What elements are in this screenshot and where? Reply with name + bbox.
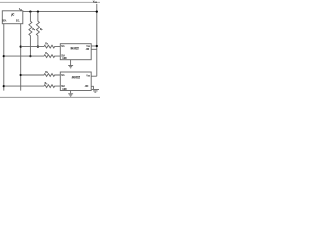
svg-text:µC: µC: [11, 13, 15, 17]
wire SDA1 to U2 with resistor RS2: [4, 55, 61, 58]
node junction SCL branch 1: [20, 45, 22, 47]
svg-text:ADD: ADD: [86, 47, 89, 51]
wire SCL1 to U2 with resistor RS1: [21, 45, 61, 48]
node junction SDA branch 2: [3, 85, 5, 87]
wire VDD top: uC to rail: [23, 11, 97, 13]
bottom rule: [0, 96, 100, 98]
wire SDA vertical from uC: [3, 24, 5, 91]
node junction RP1/SDA1: [29, 55, 31, 57]
svg-text:RS: RS: [45, 81, 48, 85]
node junction SDA branch 1: [3, 55, 5, 57]
microcontroller U1 box: [2, 11, 23, 24]
temperature sensor U2 box: [60, 44, 91, 60]
wire U3 ADD to ground: [91, 86, 93, 89]
node junction RP2/SCL1: [37, 45, 39, 47]
svg-text:MAX6625: MAX6625: [71, 47, 79, 51]
temperature sensor U3 box: [60, 72, 91, 91]
svg-text:ADD: ADD: [85, 84, 88, 88]
node junction VDD/rail: [96, 10, 98, 12]
ground symbol G2: [68, 94, 73, 96]
wire SCL vertical from uC: [20, 24, 22, 91]
node junction pullup B top: [37, 10, 39, 12]
node junction U2 VDD/rail: [96, 45, 98, 47]
wire VDD rail (right vertical): [96, 4, 98, 76]
resistor RP2 (SCL pull-up): [36, 12, 39, 47]
svg-text:SCL: SCL: [61, 73, 65, 77]
svg-text:GND: GND: [62, 56, 66, 60]
svg-text:VDD: VDD: [19, 7, 22, 11]
node junction pullup A top: [29, 10, 31, 12]
wire U2 VDD to rail: [91, 45, 97, 47]
wire U3 VDD to rail: [91, 75, 97, 77]
svg-text:SCL: SCL: [61, 44, 65, 48]
ground symbol G1: [68, 66, 73, 68]
svg-text:RP: RP: [32, 27, 35, 31]
svg-text:RP: RP: [40, 27, 43, 31]
wire SDA2 to U3 with resistor RS4: [4, 85, 61, 88]
wire U2 ADD to rail: [91, 48, 97, 50]
svg-text:MAX6625: MAX6625: [72, 76, 80, 80]
svg-text:VDD: VDD: [86, 73, 90, 77]
node junction SCL branch 2: [20, 74, 22, 76]
wire U2 GND stub: [70, 60, 72, 66]
top rule: [0, 1, 100, 3]
ground symbol G3 (ADD): [92, 90, 99, 93]
svg-text:SCL: SCL: [16, 18, 20, 22]
svg-text:GND: GND: [62, 87, 66, 91]
resistor RP1 (SDA pull-up): [29, 12, 32, 57]
svg-text:SDA: SDA: [2, 18, 6, 22]
wire SCL2 to U3 with resistor RS3: [21, 74, 61, 77]
wire U3 GND stub: [70, 91, 72, 94]
svg-text:VDD: VDD: [93, 0, 98, 4]
